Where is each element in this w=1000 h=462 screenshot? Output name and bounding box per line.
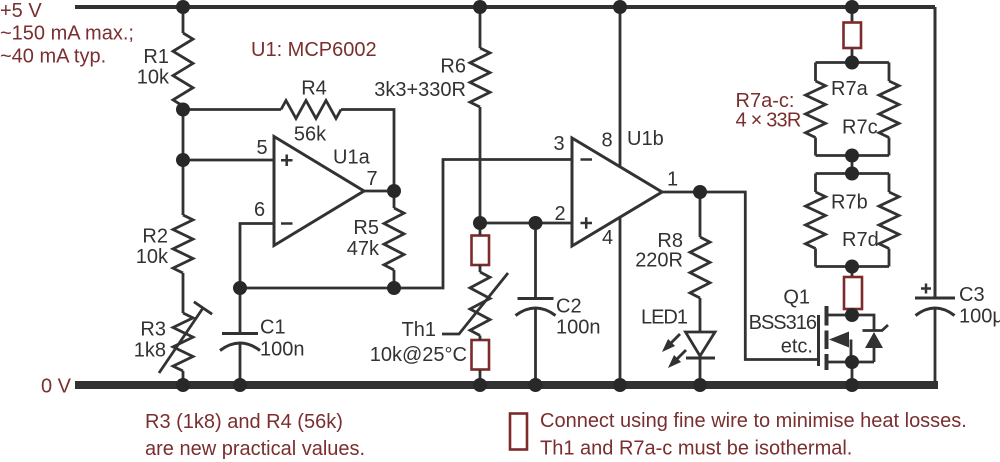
svg-text:are new practical values.: are new practical values. [145,438,365,460]
svg-text:C2: C2 [556,296,582,318]
node R5 bottom node [387,281,401,295]
node R7 group2 top [845,167,859,181]
svg-text:2: 2 [554,203,565,225]
svg-text:C3: C3 [959,284,985,306]
svg-text:Th1: Th1 [402,319,436,341]
node R7 group2 bottom [845,260,859,274]
resistor R1 [173,33,193,106]
wire pin6 node to U1b pin 3 [240,160,572,289]
svg-text:R3: R3 [140,319,166,341]
svg-text:5: 5 [256,137,267,159]
svg-text:10k: 10k [136,246,169,268]
wire to U1b pin 2 [480,222,572,225]
transistor Q1 [819,306,853,385]
svg-text:R7b: R7b [831,192,868,214]
svg-text:3k3+330R: 3k3+330R [374,79,466,101]
fine-wire joint upper (red) [472,236,490,266]
wire output node to R5 [393,191,396,208]
svg-text:0 V: 0 V [41,376,72,398]
wire pin 6 [240,224,274,289]
svg-text:+5 V: +5 V [0,0,42,22]
node Th1 on 0V rail [473,378,487,392]
node R7 chain on +5V rail [845,0,859,14]
svg-text:1k8: 1k8 [134,340,166,362]
wire R3 to 0V [182,371,185,385]
0V rail [75,381,938,389]
svg-text:R7c: R7c [842,117,878,139]
wire R2 to R3 [182,273,185,313]
resistor R4 [281,101,341,119]
svg-text:R7d: R7d [842,229,879,251]
resistor R2 [173,215,193,273]
resistor R7b [806,192,826,249]
svg-text:10k@25°C: 10k@25°C [370,344,467,366]
node R6 top on +5V rail [473,0,487,14]
svg-text:47k: 47k [347,238,380,260]
svg-text:BSS316: BSS316 [749,312,817,334]
wire right edge down to C3 [934,7,937,298]
bottom note right [510,414,527,450]
fine-wire joint top (red) [851,7,854,63]
resistor R7a [806,81,826,138]
wire between parallel groups [851,156,854,174]
wire U1b output [662,191,700,194]
thermistor Th1 [479,223,482,272]
svg-text:~150 mA max.;: ~150 mA max.; [0,23,134,45]
wire +5V to R1 [182,7,185,33]
wire U1a output [364,190,394,193]
svg-text:7: 7 [366,168,377,190]
node C1 on 0V rail [233,378,247,392]
node R7a-c top node [845,56,859,70]
svg-text:Th1 and R7a-c must be isotherm: Th1 and R7a-c must be isothermal. [540,438,852,460]
node pin6/C1 node [233,281,247,295]
LED1 emission arrows [663,334,686,367]
LED1 [699,298,702,385]
svg-text:100n: 100n [260,339,305,361]
svg-text:Connect using fine wire to min: Connect using fine wire to minimise heat… [540,410,967,432]
svg-text:etc.: etc. [781,336,813,358]
body diode (zener) of Q1 [852,315,888,362]
resistor R8 [699,192,702,237]
resistor R7d [879,192,899,249]
node divider to pin5 [176,153,190,167]
svg-text:8: 8 [601,130,612,152]
node R1 top on +5V rail [176,0,190,14]
svg-text:4: 4 [602,227,613,249]
resistor R6 [479,7,482,48]
svg-text:R1: R1 [143,46,169,68]
node C2 top node [529,216,543,230]
+5V rail [75,5,935,9]
wire U1b out to Q1 gate [700,192,819,360]
node R1/R2/R4 node [176,103,190,117]
node Q1 on 0V rail [845,378,859,392]
svg-text:100n: 100n [556,317,601,339]
node Q1 drain node [845,308,859,322]
node R3 on 0V rail [176,378,190,392]
wire R4 to U1a output [341,110,394,192]
svg-text:R4: R4 [301,78,327,100]
op-amp U1a [274,137,364,246]
node U1a output node [387,184,401,198]
svg-text:~40 mA typ.: ~40 mA typ. [0,46,106,68]
svg-text:4 × 33R: 4 × 33R [736,110,801,132]
node R7 group1 bottom [845,149,859,163]
svg-text:U1a: U1a [333,147,371,169]
svg-text:R3 (1k8) and R4 (56k): R3 (1k8) and R4 (56k) [145,411,343,433]
fine-wire joint bottom (red) [851,267,854,316]
svg-text:R7a: R7a [831,78,869,100]
wire node to R4 [183,108,281,111]
svg-text:R5: R5 [353,217,379,239]
svg-text:220R: 220R [635,250,683,272]
resistor R5 [384,208,404,270]
wire to pin 5 [183,159,274,162]
svg-text:Q1: Q1 [783,287,810,309]
capacitor C1 [239,288,242,334]
op-amp U1b [619,7,622,167]
trimmer R3 [173,313,193,371]
svg-text:R2: R2 [142,226,168,248]
svg-text:56k: 56k [294,124,327,146]
svg-text:R6: R6 [440,56,466,78]
node U1b pin8 on +5V rail [613,0,627,14]
svg-text:10k: 10k [137,67,170,89]
svg-text:LED1: LED1 [641,307,688,329]
svg-text:6: 6 [254,199,265,221]
resistor R7c [879,81,899,138]
svg-text:100µ: 100µ [959,306,1000,328]
node R6/Th1/pin2 node [473,216,487,230]
node Q1 source node [845,355,859,369]
wire R5 bottom [393,270,396,288]
wire R7a/R7c parallel frame [816,63,890,156]
node U1b pin4 on 0V rail [613,378,627,392]
svg-text:U1b: U1b [627,128,664,150]
svg-text:3: 3 [553,133,564,155]
svg-text:U1: MCP6002: U1: MCP6002 [251,39,377,61]
fine-wire joint lower (red) [472,340,490,370]
node U1b output node [693,185,707,199]
svg-text:1: 1 [667,169,678,191]
capacitor C2 [534,223,537,299]
wire R1 to R2 [182,106,185,215]
svg-text:C1: C1 [260,317,286,339]
node LED1 on 0V rail [693,378,707,392]
capacitor C3 [915,297,955,300]
node C2 on 0V rail [529,378,543,392]
wire R7b/R7d parallel frame [816,174,890,267]
